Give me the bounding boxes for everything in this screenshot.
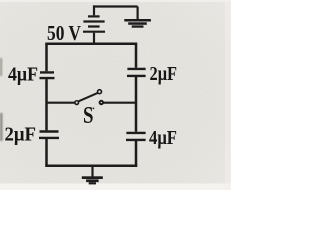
svg-text:50 V: 50 V: [47, 21, 81, 45]
svg-text:4μF: 4μF: [149, 127, 177, 149]
svg-text:2μF: 2μF: [150, 63, 178, 85]
svg-text:2μF: 2μF: [5, 123, 37, 145]
svg-text:S: S: [83, 103, 94, 129]
svg-text:4μF: 4μF: [8, 63, 38, 85]
